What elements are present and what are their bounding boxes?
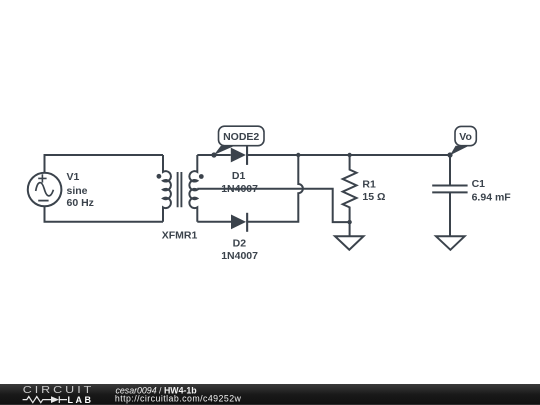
svg-text:D1: D1 (232, 170, 246, 182)
diode D2 cathode bar (246, 213, 248, 232)
svg-text:XFMR1: XFMR1 (162, 229, 198, 241)
ground symbol under C1 (436, 236, 465, 250)
junction dot Vo node (447, 152, 452, 157)
V1 minus sign (38, 200, 48, 202)
svg-text:D2: D2 (233, 237, 247, 249)
wire secondary top to D1 anode (197, 154, 231, 156)
wire bottom-left loop (V1 bottom to XFMR1 primary bottom) (45, 206, 164, 222)
transformer XFMR1 primary winding (163, 155, 171, 222)
wire D2 cathode right then up to top rail with hop (247, 155, 303, 222)
svg-text:15 Ω: 15 Ω (362, 191, 385, 203)
diode D2 triangle (231, 215, 246, 230)
junction dot R1 bottom (347, 220, 351, 224)
svg-text:6.94 mF: 6.94 mF (472, 191, 512, 203)
svg-text:1N4007: 1N4007 (221, 250, 258, 262)
svg-text:R1: R1 (362, 179, 376, 191)
svg-text:LAB: LAB (68, 395, 92, 405)
svg-text:C1: C1 (472, 178, 486, 190)
node label Vo box (455, 126, 476, 145)
wire D1 cathode to Vo node (top rail) (247, 154, 450, 156)
junction dot NODE2 on wire (211, 152, 216, 157)
wire C1 bottom plate to ground (449, 192, 451, 236)
wire top-left loop (V1 top to XFMR1 primary top) (45, 155, 164, 173)
transformer primary phase dot (157, 174, 162, 179)
svg-text:V1: V1 (67, 171, 80, 183)
Vo pointer wedge (450, 146, 469, 155)
diode D1 triangle (231, 148, 246, 163)
node label NODE2 box (219, 126, 265, 146)
CircuitLab logo diode glyph (51, 396, 59, 403)
footer bar bottom edge (0, 404, 540, 405)
voltage source V1 circle (28, 173, 62, 207)
CircuitLab logo wire-resistor squiggle (23, 396, 67, 403)
ground symbol under R1 (335, 236, 364, 250)
V1 sine symbol (36, 183, 54, 196)
junction dot R1 top on rail (347, 153, 351, 157)
wire secondary bottom to D2 anode (197, 221, 231, 223)
svg-text:sine: sine (67, 185, 88, 197)
svg-text:Vo: Vo (459, 131, 472, 143)
transformer secondary phase dot (199, 174, 204, 179)
footer bar background (0, 384, 540, 405)
diode D1 cathode bar (246, 146, 248, 165)
transformer XFMR1 secondary winding (189, 155, 197, 222)
svg-text:http://circuitlab.com/c49252w: http://circuitlab.com/c49252w (115, 394, 242, 404)
wire R1 bottom to ground (349, 222, 351, 236)
NODE2 pointer wedge (214, 146, 235, 155)
svg-text:NODE2: NODE2 (223, 131, 259, 143)
V1 plus sign (38, 174, 46, 182)
svg-text:1N4007: 1N4007 (221, 183, 258, 195)
capacitor C1 plates (432, 186, 467, 193)
wire center tap to R1 bottom (197, 189, 349, 222)
junction dot D2 branch on top rail (296, 153, 300, 157)
wire Vo node down to C1 top plate (449, 155, 451, 186)
transformer XFMR1 core bars (178, 172, 182, 207)
svg-text:60 Hz: 60 Hz (67, 197, 94, 209)
resistor R1 zigzag (343, 155, 357, 222)
